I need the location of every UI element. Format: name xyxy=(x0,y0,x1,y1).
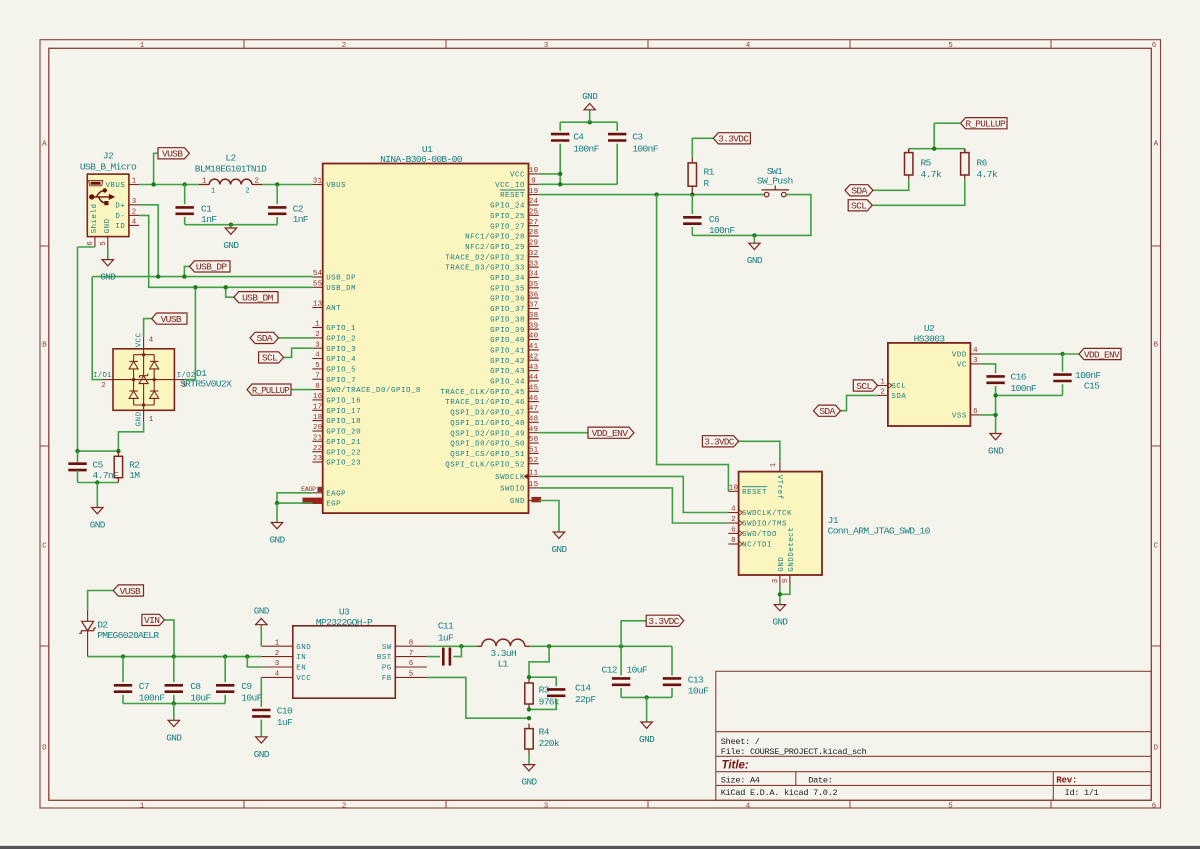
U1 pin 28 NFC1/GPIO_28 xyxy=(465,229,539,241)
svg-text:20: 20 xyxy=(313,424,322,432)
junction xyxy=(690,192,694,196)
global label VDD_ENV at U1 xyxy=(588,427,634,439)
svg-text:4: 4 xyxy=(315,352,320,360)
svg-text:1uF: 1uF xyxy=(277,717,293,728)
U2 pin 2 SDA xyxy=(878,389,907,401)
wire VTref to 3.3VDC xyxy=(739,441,780,461)
svg-text:C3: C3 xyxy=(632,131,643,142)
wire xyxy=(620,646,622,675)
U1 pin 24 GPIO_24 xyxy=(490,198,539,210)
wire VBUS net xyxy=(139,184,199,186)
svg-text:GPIO_27: GPIO_27 xyxy=(490,223,525,231)
U2 pin 4 VDD xyxy=(952,347,981,359)
svg-text:SWDIO: SWDIO xyxy=(500,486,525,494)
svg-text:4: 4 xyxy=(746,42,751,50)
svg-text:VCC_IO: VCC_IO xyxy=(495,182,525,190)
wire xyxy=(671,688,673,697)
ground xyxy=(772,604,788,628)
svg-text:3: 3 xyxy=(182,382,186,390)
svg-text:50: 50 xyxy=(529,436,538,444)
junction xyxy=(752,233,756,237)
wire xyxy=(77,451,79,464)
svg-text:GND: GND xyxy=(104,218,112,233)
junction xyxy=(121,654,125,658)
svg-text:4: 4 xyxy=(132,219,137,227)
svg-text:4: 4 xyxy=(275,671,280,679)
J2 pin 4 ID xyxy=(115,219,139,231)
wire C16 C15 bus xyxy=(996,394,1063,396)
svg-text:21: 21 xyxy=(313,435,323,443)
svg-text:ID: ID xyxy=(115,223,125,231)
J1 pin 10 RESET xyxy=(728,485,767,497)
svg-text:47: 47 xyxy=(529,405,538,413)
power label 3.3VDC at output xyxy=(646,615,684,627)
U3 pin 6 PG xyxy=(382,660,427,672)
svg-text:VC: VC xyxy=(957,362,967,370)
U1 pin 37 GPIO_37 xyxy=(490,302,539,314)
junction xyxy=(588,120,592,124)
svg-text:SWDCLK/TCK: SWDCLK/TCK xyxy=(742,510,792,518)
wire VUSB to D2 xyxy=(88,591,114,610)
U1 pin 20 GPIO_20 xyxy=(312,424,361,436)
svg-text:GPIO_17: GPIO_17 xyxy=(326,408,361,416)
svg-text:SRTR5V0U2X: SRTR5V0U2X xyxy=(180,379,232,390)
svg-text:QSPI_D2/GPIO_49: QSPI_D2/GPIO_49 xyxy=(450,430,525,438)
wire VSS xyxy=(981,415,996,434)
wire VCC to C10 xyxy=(260,677,262,706)
svg-text:GPIO_44: GPIO_44 xyxy=(490,379,525,387)
svg-text:D: D xyxy=(42,745,47,753)
U1 pin 41 GPIO_41 xyxy=(490,343,539,355)
wire RESET net xyxy=(539,194,764,196)
svg-text:54: 54 xyxy=(313,270,323,278)
wire EAGP to gnd xyxy=(277,493,312,503)
svg-text:100nF: 100nF xyxy=(573,143,599,154)
U1 pin 36 GPIO_36 xyxy=(490,291,539,303)
wire D+ from J2 xyxy=(139,205,158,277)
svg-text:SW: SW xyxy=(382,644,392,652)
svg-text:34: 34 xyxy=(529,271,539,279)
junction xyxy=(172,654,176,658)
svg-text:GND: GND xyxy=(582,91,598,102)
svg-text:GPIO_5: GPIO_5 xyxy=(326,367,356,375)
wire C4 C3 top bus xyxy=(560,121,617,123)
junction xyxy=(993,393,997,397)
svg-text:GND: GND xyxy=(254,606,270,617)
svg-text:HS3003: HS3003 xyxy=(914,333,946,344)
junction xyxy=(459,644,463,648)
U1 pin 13 ANT xyxy=(312,301,341,313)
D1 internal diodes xyxy=(113,349,174,411)
junction xyxy=(527,707,531,711)
svg-text:4: 4 xyxy=(149,336,154,344)
svg-text:GPIO_3: GPIO_3 xyxy=(326,346,356,354)
U1 pin 47 QSPI_D3/GPIO_47 xyxy=(450,405,539,417)
U3 pin 4 VCC xyxy=(261,671,311,683)
svg-text:8: 8 xyxy=(409,639,414,647)
svg-text:4.7k: 4.7k xyxy=(921,169,942,180)
svg-text:J1: J1 xyxy=(828,515,839,526)
svg-text:1nF: 1nF xyxy=(293,214,309,225)
svg-text:GPIO_25: GPIO_25 xyxy=(490,213,525,221)
U1 pin 23 GPIO_23 xyxy=(312,455,361,467)
svg-text:5: 5 xyxy=(315,362,320,370)
wire C5 R2 top bus xyxy=(78,450,119,452)
svg-text:32: 32 xyxy=(529,250,538,258)
ground xyxy=(269,522,285,546)
global label USB_DP xyxy=(190,261,231,273)
U1 pin 4 GPIO_4 xyxy=(312,352,356,364)
wire xyxy=(616,144,618,185)
svg-text:3.3VDC: 3.3VDC xyxy=(718,134,749,145)
capacitor C14 xyxy=(547,689,565,695)
svg-text:22: 22 xyxy=(313,445,322,453)
svg-text:L1: L1 xyxy=(498,658,509,669)
global label SCL top xyxy=(848,200,872,212)
svg-text:GPIO_24: GPIO_24 xyxy=(490,203,525,211)
svg-text:GPIO_20: GPIO_20 xyxy=(326,429,361,437)
J1 pin 1 VTref xyxy=(770,461,783,499)
svg-text:52: 52 xyxy=(529,457,538,465)
svg-text:R2: R2 xyxy=(129,460,140,471)
U1 pin 27 GPIO_27 xyxy=(490,219,539,231)
svg-text:TRACE_D1/GPIO_46: TRACE_D1/GPIO_46 xyxy=(445,399,525,407)
svg-text:C2: C2 xyxy=(293,204,304,215)
svg-text:ANT: ANT xyxy=(326,305,341,313)
svg-text:Conn_ARM_JTAG_SWD_10: Conn_ARM_JTAG_SWD_10 xyxy=(828,526,931,537)
junction xyxy=(224,285,228,289)
global label VDD_ENV at U2 xyxy=(1079,348,1121,360)
svg-text:GPIO_36: GPIO_36 xyxy=(490,296,525,304)
D1 pin 2 I/O1 xyxy=(93,372,113,390)
U1 pin 29 NFC2/GPIO_29 xyxy=(465,240,539,252)
svg-text:SDA: SDA xyxy=(257,333,273,344)
U1 pin 50 QSPI_D0/GPIO_50 xyxy=(450,436,539,448)
svg-text:VSS: VSS xyxy=(952,413,967,421)
svg-text:43: 43 xyxy=(529,364,538,372)
wire USB_DP net xyxy=(92,276,312,278)
wire R4 to gnd xyxy=(528,754,530,765)
ic U3 MP2322GQH-P body xyxy=(293,626,396,698)
D1 pin 1 GND xyxy=(136,410,154,426)
svg-text:EAGP: EAGP xyxy=(326,490,346,498)
svg-text:L2: L2 xyxy=(225,153,236,164)
svg-text:NINA-B306-00B-00: NINA-B306-00B-00 xyxy=(380,154,463,165)
svg-text:GND: GND xyxy=(778,557,786,572)
svg-text:1uF: 1uF xyxy=(438,633,454,644)
diode D1 SRTR5V0U2X body xyxy=(113,349,174,411)
U3 pin 5 FB xyxy=(382,671,427,683)
svg-text:42: 42 xyxy=(529,353,538,361)
svg-text:35: 35 xyxy=(529,281,538,289)
wire USB_DM to D1 I/O2 xyxy=(185,287,196,379)
wire SW node xyxy=(427,645,477,647)
svg-text:10uF: 10uF xyxy=(688,686,709,697)
svg-text:GND: GND xyxy=(136,411,144,426)
U1 pin 55 USB_DM xyxy=(312,281,356,293)
U1 pin 22 GPIO_22 xyxy=(312,445,361,457)
wire gnd stem EAGP xyxy=(276,503,278,522)
svg-text:VCC: VCC xyxy=(136,332,144,347)
svg-text:1nF: 1nF xyxy=(201,214,217,225)
svg-text:A: A xyxy=(42,141,47,149)
svg-text:D2: D2 xyxy=(97,620,108,631)
svg-text:29: 29 xyxy=(529,240,538,248)
svg-text:GPIO_37: GPIO_37 xyxy=(490,306,525,314)
svg-text:GND: GND xyxy=(296,644,311,652)
J2 pin 5 GND xyxy=(100,218,112,247)
svg-text:GPIO_35: GPIO_35 xyxy=(490,285,525,293)
svg-text:SWO/TRACE_D0/GPIO_8: SWO/TRACE_D0/GPIO_8 xyxy=(326,387,421,395)
wire xyxy=(671,646,673,675)
svg-text:6: 6 xyxy=(1152,802,1157,810)
junction xyxy=(654,192,658,196)
U1 pin 45 TRACE_CLK/GPIO_45 xyxy=(440,385,539,397)
svg-text:VUSB: VUSB xyxy=(120,586,141,597)
junction xyxy=(116,449,120,453)
svg-text:RESET: RESET xyxy=(742,489,767,497)
svg-text:18: 18 xyxy=(313,414,322,422)
svg-text:4: 4 xyxy=(746,802,751,810)
svg-text:EN: EN xyxy=(296,665,306,673)
svg-text:2: 2 xyxy=(731,516,736,524)
svg-text:3.3VDC: 3.3VDC xyxy=(648,616,679,627)
svg-text:GPIO_42: GPIO_42 xyxy=(490,358,525,366)
wire SCL to R6 xyxy=(872,180,965,206)
svg-text:1: 1 xyxy=(770,462,778,467)
window bottom edge xyxy=(0,844,1200,846)
svg-text:GPIO_43: GPIO_43 xyxy=(490,368,525,376)
svg-text:R6: R6 xyxy=(977,157,988,168)
resistor R3 xyxy=(525,678,533,709)
svg-text:GND: GND xyxy=(254,749,270,760)
U1 pin 21 GPIO_21 xyxy=(312,435,361,447)
wire R_PULLUP stem xyxy=(933,123,935,149)
wire xyxy=(224,695,226,704)
svg-text:NC/TDI: NC/TDI xyxy=(742,542,772,550)
global label SDA at U2 xyxy=(814,405,841,417)
wire U1 GND pin xyxy=(539,501,559,533)
svg-text:Shield: Shield xyxy=(91,203,99,233)
svg-text:37: 37 xyxy=(529,302,538,310)
svg-text:QSPI_D1/GPIO_48: QSPI_D1/GPIO_48 xyxy=(450,420,525,428)
svg-text:2: 2 xyxy=(245,187,250,195)
ground xyxy=(551,532,567,556)
svg-text:24: 24 xyxy=(529,198,539,206)
wire xyxy=(691,195,693,215)
svg-text:6: 6 xyxy=(409,660,414,668)
U1 pin EGP xyxy=(312,501,341,509)
svg-text:10uF: 10uF xyxy=(627,665,648,676)
wire xyxy=(122,695,124,704)
svg-text:1: 1 xyxy=(202,178,207,186)
svg-text:1: 1 xyxy=(275,639,280,647)
svg-text:GPIO_22: GPIO_22 xyxy=(326,449,361,457)
svg-text:D-: D- xyxy=(115,213,125,221)
wire EGP to gnd xyxy=(277,502,312,504)
svg-text:C9: C9 xyxy=(241,681,252,692)
svg-text:49: 49 xyxy=(529,426,538,434)
svg-text:GPIO_39: GPIO_39 xyxy=(490,327,525,335)
svg-text:USB_DP: USB_DP xyxy=(326,275,356,283)
U3 pin 8 SW xyxy=(382,639,427,651)
global label SCL at U2 xyxy=(853,380,877,392)
wire C12 C13 bottom bus xyxy=(621,696,672,698)
svg-text:C10: C10 xyxy=(277,706,293,717)
svg-text:SCL: SCL xyxy=(891,383,906,391)
wire VBUS right of L2 xyxy=(262,184,312,186)
wire VDD to VDD_ENV xyxy=(981,353,1079,355)
svg-text:1: 1 xyxy=(140,42,145,50)
U3 pin 1 GND xyxy=(261,639,311,651)
junction xyxy=(932,147,936,151)
svg-text:10: 10 xyxy=(729,485,738,493)
svg-text:QSPI_D3/GPIO_47: QSPI_D3/GPIO_47 xyxy=(450,410,525,418)
U1 pin GND xyxy=(510,498,539,506)
junction xyxy=(193,285,197,289)
J1 pin 9 GNDDetect xyxy=(782,527,796,586)
svg-text:C4: C4 xyxy=(573,131,584,142)
svg-text:GPIO_41: GPIO_41 xyxy=(490,348,525,356)
svg-text:1: 1 xyxy=(315,321,320,329)
wire xyxy=(77,470,79,482)
junction xyxy=(95,480,99,484)
J2 pin 1 VBUS xyxy=(105,178,139,190)
wire gnd stem SW1 xyxy=(753,235,755,243)
wire ground stem xyxy=(230,225,232,228)
svg-text:11: 11 xyxy=(529,470,539,478)
junction xyxy=(223,654,227,658)
ground xyxy=(254,606,270,625)
svg-text:C8: C8 xyxy=(190,681,201,692)
wire 3.3VDC stem xyxy=(621,621,646,647)
junction xyxy=(558,182,562,186)
svg-text:U3: U3 xyxy=(339,607,350,618)
ground xyxy=(223,228,239,252)
wire SWDCLK net xyxy=(539,476,729,512)
svg-text:5: 5 xyxy=(948,42,953,50)
svg-text:EGP: EGP xyxy=(326,501,341,509)
junction xyxy=(1060,352,1064,356)
U1 pin 34 GPIO_34 xyxy=(490,271,539,283)
J2 USB plug icon xyxy=(89,181,103,186)
wire xyxy=(1062,384,1064,395)
svg-text:NFC2/GPIO_29: NFC2/GPIO_29 xyxy=(465,244,525,252)
svg-text:4.7k: 4.7k xyxy=(977,169,998,180)
svg-text:10uF: 10uF xyxy=(190,693,211,704)
svg-text:USB_DM: USB_DM xyxy=(242,293,274,304)
svg-text:C: C xyxy=(42,543,47,551)
svg-text:9: 9 xyxy=(531,178,536,186)
wire RESET to J1 xyxy=(657,195,729,492)
svg-text:GND: GND xyxy=(772,617,788,628)
svg-text:55: 55 xyxy=(313,281,322,289)
resistor R4 xyxy=(525,724,533,754)
junction xyxy=(182,274,186,278)
svg-text:7: 7 xyxy=(315,372,320,380)
wire VC to C16 xyxy=(981,364,996,373)
wire xyxy=(260,720,262,737)
svg-text:10: 10 xyxy=(529,167,538,175)
U1 pin 9 VCC_IO xyxy=(495,178,539,190)
svg-text:4: 4 xyxy=(973,347,978,355)
wire R5 R6 top bus xyxy=(909,148,965,150)
power label 3.3VDC at J1 xyxy=(702,436,738,448)
junction xyxy=(778,592,782,596)
U1 pin 35 GPIO_35 xyxy=(490,281,539,293)
svg-text:KiCad E.D.A. kicad 7.0.2: KiCad E.D.A. kicad 7.0.2 xyxy=(721,788,838,798)
wire xyxy=(995,386,997,415)
svg-text:100nF: 100nF xyxy=(632,143,658,154)
svg-text:VCC: VCC xyxy=(296,675,311,683)
svg-text:FB: FB xyxy=(382,675,392,683)
wire SDA U1 xyxy=(279,337,313,339)
wire J2 gnd pin xyxy=(107,247,109,260)
wire FB divider tap xyxy=(529,646,549,678)
svg-text:GND: GND xyxy=(639,734,655,745)
ground xyxy=(166,720,182,744)
wire xyxy=(1062,354,1064,372)
svg-text:25: 25 xyxy=(529,209,538,217)
svg-text:B: B xyxy=(42,342,47,350)
connector J1 Conn_ARM_JTAG_SWD_10 body xyxy=(739,472,822,575)
svg-text:100nF: 100nF xyxy=(709,225,735,236)
J1 pin 8 NC/TDI xyxy=(728,537,772,549)
U1 pin 33 TRACE_D3/GPIO_33 xyxy=(445,260,539,272)
wire VCC_IO pin9 bus xyxy=(539,183,617,185)
U2 pin 3 VC xyxy=(957,357,981,369)
svg-text:GPIO_7: GPIO_7 xyxy=(326,377,356,385)
U1 pin 32 TRACE_D2/GPIO_32 xyxy=(445,250,539,262)
junction xyxy=(75,449,79,453)
junction EAGP EGP xyxy=(275,501,279,505)
svg-text:IN: IN xyxy=(296,654,306,662)
J2 pin 6 Shield xyxy=(87,203,99,247)
svg-text:16: 16 xyxy=(313,393,322,401)
wire R_PULLUP U1 xyxy=(291,389,312,391)
svg-text:MP2322GQH-P: MP2322GQH-P xyxy=(316,617,373,628)
svg-text:22pF: 22pF xyxy=(575,694,596,705)
J1 pin 4 SWDCLK/TCK xyxy=(728,506,792,518)
junction xyxy=(619,644,623,648)
U1 pin 10 VCC xyxy=(510,167,539,179)
svg-text:GND: GND xyxy=(510,498,525,506)
svg-text:GND: GND xyxy=(90,520,106,531)
ground xyxy=(90,507,106,531)
svg-text:9: 9 xyxy=(782,579,790,583)
svg-text:USB_B_Micro: USB_B_Micro xyxy=(80,162,137,173)
wire USB_DM label stem xyxy=(226,287,234,297)
wire L1 to output xyxy=(530,645,672,647)
switch SW1 SW_Push xyxy=(762,186,790,197)
junction xyxy=(527,675,531,679)
svg-text:SWDCLK: SWDCLK xyxy=(495,474,525,482)
svg-text:1: 1 xyxy=(149,416,154,424)
svg-text:5: 5 xyxy=(409,671,414,679)
svg-text:EAGP: EAGP xyxy=(301,486,316,493)
U1 pin 51 QSPI_CS/GPIO_51 xyxy=(450,447,539,459)
junction xyxy=(644,695,648,699)
svg-text:C: C xyxy=(1154,543,1159,551)
capacitor C16 xyxy=(986,376,1004,382)
U1 pin 8 SWO/TRACE_D0/GPIO_8 xyxy=(312,383,421,395)
svg-text:VDD_ENV: VDD_ENV xyxy=(1084,349,1120,360)
U3 pin 2 IN xyxy=(261,650,306,662)
svg-text:VDD: VDD xyxy=(952,352,967,360)
svg-text:3: 3 xyxy=(772,579,780,583)
junction xyxy=(275,182,279,186)
svg-text:100nF: 100nF xyxy=(1011,383,1037,394)
